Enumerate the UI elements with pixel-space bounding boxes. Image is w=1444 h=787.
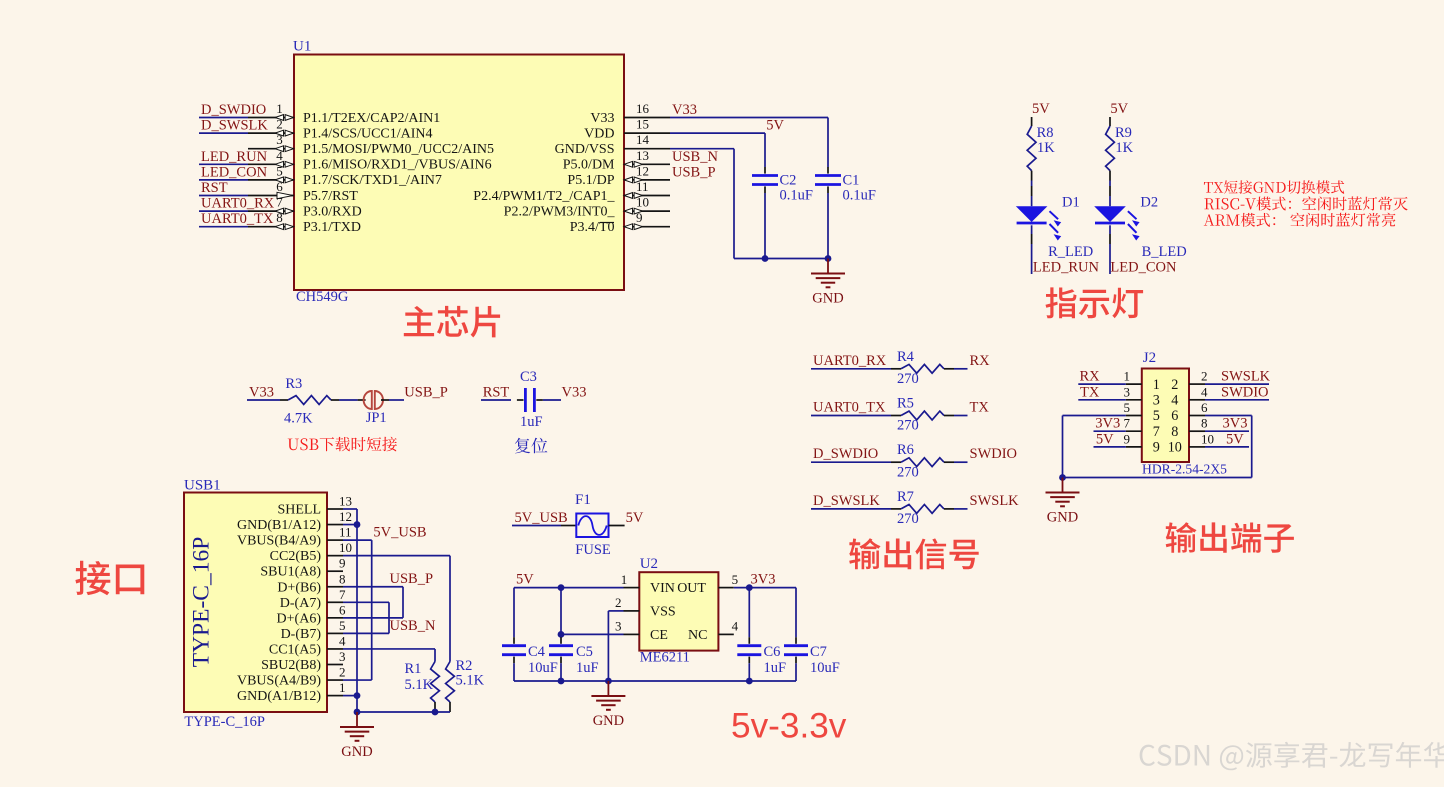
U1 pin name P5.1/DP <box>567 173 614 188</box>
junction <box>558 678 565 685</box>
resistor R3 <box>288 396 331 405</box>
U1 pin 5 io arrow <box>275 177 293 183</box>
svg-text:270: 270 <box>897 464 919 480</box>
LED D2 lead <box>1109 234 1111 244</box>
LED D2 lead <box>1109 186 1111 196</box>
node RST <box>483 385 510 401</box>
regulator U2 body <box>639 572 718 650</box>
title 接口 <box>75 561 144 595</box>
U1 pin 11 lead <box>624 195 670 197</box>
svg-text:5V: 5V <box>1032 101 1050 117</box>
svg-text:ME6211: ME6211 <box>640 650 690 666</box>
J2 pin 1 lead <box>1126 383 1142 385</box>
node V33 <box>672 102 697 118</box>
svg-text:5V: 5V <box>766 118 784 134</box>
node USB_P <box>390 571 434 587</box>
U1 pin name P1.5/MOSI/PWM0_/UCC2/AIN5 <box>303 142 494 157</box>
USB1 pin name SBU2(B8) <box>261 658 321 673</box>
wire USB_P pin8 <box>343 587 403 618</box>
svg-text:D2: D2 <box>1140 195 1158 211</box>
svg-text:TX: TX <box>970 400 990 416</box>
USB1 pin 13 number <box>339 494 352 509</box>
U2 pin 1 number <box>621 572 628 587</box>
wire VSS down <box>608 611 623 681</box>
U1 pin name GND/VSS <box>555 142 615 157</box>
svg-text:16: 16 <box>636 101 650 116</box>
wire CC1 to R1 <box>343 649 435 662</box>
resistor R8 lead <box>1031 171 1033 181</box>
C5 reference <box>576 644 593 660</box>
wire SWSLK <box>1205 383 1269 385</box>
U1 pin 1 io arrow <box>275 115 293 121</box>
USB1 value TYPE-C_16P <box>184 714 265 730</box>
svg-text:D_SWSLK: D_SWSLK <box>201 118 268 134</box>
U2 pin 2 number <box>615 595 622 610</box>
svg-text:10: 10 <box>339 540 352 555</box>
J2 pin 9 number <box>1124 431 1131 446</box>
svg-text:12: 12 <box>339 509 352 524</box>
C3 value 1uF <box>520 414 543 430</box>
wire C7 branch <box>795 588 797 638</box>
USB1 pin 9 lead <box>327 570 343 572</box>
wire <box>1109 225 1111 234</box>
U2 pin name NC <box>688 628 707 643</box>
USB1 pin 13 lead <box>327 508 343 510</box>
USB1 pin name SHELL <box>277 503 321 518</box>
wire 3V3 right <box>1205 430 1249 432</box>
svg-text:R9: R9 <box>1115 125 1132 141</box>
resistor R5 lead <box>944 415 954 417</box>
svg-text:5V_USB: 5V_USB <box>515 510 568 526</box>
wire <box>1031 181 1033 187</box>
svg-text:3V3: 3V3 <box>751 572 776 588</box>
svg-text:11: 11 <box>339 525 352 540</box>
connector USB1 body <box>184 493 327 713</box>
node SWSLK <box>1221 369 1271 385</box>
annotation USB下载时短接 <box>288 437 397 452</box>
svg-text:8: 8 <box>339 571 346 586</box>
U2 pin 2 lead <box>624 610 640 612</box>
svg-text:15: 15 <box>636 117 649 132</box>
junction <box>354 692 361 699</box>
wire C4 branch <box>513 588 515 638</box>
USB1 reference <box>184 478 221 494</box>
J2 pin 8 lead <box>1189 430 1205 432</box>
svg-text:R5: R5 <box>897 396 914 412</box>
U1 pin 9 io arrow <box>624 224 642 230</box>
svg-text:USB_P: USB_P <box>672 164 716 180</box>
C3 reference <box>520 369 537 385</box>
node SWDIO <box>970 446 1018 462</box>
resistor R9 lead <box>1109 171 1111 181</box>
U1 pin name P2.2/PWM3/INT0_ <box>504 204 616 219</box>
resistor R6 lead <box>944 461 954 463</box>
node 3V3 <box>1095 416 1120 432</box>
U1 pin 15 number <box>636 117 649 132</box>
svg-text:D_SWDIO: D_SWDIO <box>813 446 878 462</box>
ground <box>591 681 625 729</box>
svg-text:1K: 1K <box>1037 140 1055 156</box>
wire <box>339 399 358 401</box>
watermark CSDN <box>1140 742 1444 771</box>
IC U1 CH549G body <box>294 55 624 291</box>
svg-text:5: 5 <box>1153 408 1160 424</box>
U2 pin 5 lead <box>718 587 733 589</box>
U2 pin name OUT <box>677 581 706 596</box>
node UART0_RX <box>201 196 275 212</box>
node USB_P <box>404 385 448 401</box>
U1 reference designator <box>293 39 311 55</box>
U1 pin 4 io arrow <box>275 161 293 167</box>
node USB_N <box>390 618 436 634</box>
node SWSLK <box>970 493 1020 509</box>
svg-text:OUT: OUT <box>677 581 706 596</box>
fuse F1 <box>576 514 608 538</box>
junction <box>605 678 612 685</box>
J2 pin 1 number inside <box>1153 377 1160 393</box>
U1 pin name P3.4/T0 <box>570 220 615 235</box>
U1 pin 11 number <box>636 179 649 194</box>
USB1 pin 12 lead <box>327 524 343 526</box>
R3 reference <box>285 376 302 392</box>
U1 pin 7 io arrow <box>275 208 293 214</box>
resistor R5 <box>901 411 944 420</box>
U1 pin 14 number <box>636 132 650 147</box>
capacitor C1 <box>815 167 841 193</box>
resistor R6 <box>901 458 944 467</box>
svg-text:7: 7 <box>1153 424 1160 440</box>
junction <box>558 584 565 591</box>
svg-text:2: 2 <box>615 595 622 610</box>
wire <box>748 663 750 681</box>
U1 pin 10 number <box>636 195 649 210</box>
title 输出端子 <box>1166 522 1294 553</box>
annotation TX短接GND切换模式 <box>1204 180 1344 194</box>
svg-text:R1: R1 <box>405 661 422 677</box>
wire <box>513 663 515 681</box>
svg-text:8: 8 <box>1171 424 1178 440</box>
node 3V3 <box>751 572 776 588</box>
svg-text:V33: V33 <box>590 111 614 126</box>
U1 pin name V33 <box>590 111 614 126</box>
capacitor C3 <box>517 388 543 412</box>
USB1 pin 11 number <box>339 525 352 540</box>
wire <box>560 663 562 681</box>
U1 pin 16 number <box>636 101 650 116</box>
wire GND pin1 <box>343 695 357 697</box>
U1 pin 5 number <box>276 163 283 178</box>
svg-text:7: 7 <box>339 587 346 602</box>
svg-text:D_SWSLK: D_SWSLK <box>813 493 880 509</box>
svg-text:P1.7/SCK/TXD1_/AIN7: P1.7/SCK/TXD1_/AIN7 <box>303 173 442 188</box>
node RST <box>201 180 228 196</box>
USB1 pin 8 number <box>339 571 346 586</box>
USB1 pin 4 number <box>339 633 346 648</box>
svg-text:D-(B7): D-(B7) <box>281 627 322 642</box>
resistor R2 <box>446 662 455 703</box>
wire <box>481 399 511 401</box>
U1 pin 4 lead <box>248 163 294 165</box>
svg-text:C6: C6 <box>764 644 781 660</box>
svg-text:UART0_TX: UART0_TX <box>201 211 274 227</box>
C5 value 1uF <box>576 660 599 676</box>
wire <box>811 461 891 463</box>
svg-text:1uF: 1uF <box>576 660 599 676</box>
svg-text:LED_CON: LED_CON <box>1110 259 1177 275</box>
svg-text:V33: V33 <box>562 385 587 401</box>
svg-text:0.1uF: 0.1uF <box>780 188 813 204</box>
resistor R7 lead <box>891 508 901 510</box>
node V33 <box>562 385 587 401</box>
svg-text:9: 9 <box>339 556 346 571</box>
junction <box>354 709 361 716</box>
svg-text:HDR-2.54-2X5: HDR-2.54-2X5 <box>1142 462 1227 477</box>
svg-text:10: 10 <box>1201 431 1214 446</box>
node USB_N <box>672 149 718 165</box>
svg-text:3: 3 <box>276 132 283 147</box>
U1 pin name P5.0/DM <box>563 158 615 173</box>
wire C1 to rail <box>827 193 829 259</box>
svg-text:NC: NC <box>688 628 707 643</box>
U1 pin 9 lead <box>624 226 670 228</box>
C2 value 0.1uF <box>780 188 813 204</box>
USB1 pin 7 lead <box>327 601 343 603</box>
svg-text:LED_RUN: LED_RUN <box>1033 259 1100 275</box>
wire <box>512 525 561 527</box>
svg-text:6: 6 <box>276 179 283 194</box>
U1 pin 12 io arrow <box>624 177 642 183</box>
svg-text:9: 9 <box>1153 440 1160 456</box>
J2 pin 6 number inside <box>1171 408 1178 424</box>
U2 pin 1 lead <box>624 587 640 589</box>
U2 pin name VSS <box>650 604 676 619</box>
svg-text:LED_RUN: LED_RUN <box>201 149 268 165</box>
U1 pin 13 number <box>636 148 649 163</box>
U1 pin 10 lead <box>624 210 670 212</box>
J2 pin 5 lead <box>1126 415 1142 417</box>
node 5V <box>1096 431 1114 447</box>
svg-text:270: 270 <box>897 371 919 387</box>
svg-text:R6: R6 <box>897 442 914 458</box>
junction <box>354 521 361 528</box>
J2 pin 6 lead <box>1189 415 1205 417</box>
wire <box>1031 196 1033 206</box>
USB1 pin 7 number <box>339 587 346 602</box>
svg-text:USB_N: USB_N <box>672 149 718 165</box>
wire 5V left <box>1094 446 1126 448</box>
wire <box>247 399 280 401</box>
C7 value 10uF <box>810 660 840 676</box>
wire <box>954 508 968 510</box>
resistor R3 lead <box>331 399 339 401</box>
resistor R5 lead <box>891 415 901 417</box>
USB1 pin 1 number <box>339 680 346 695</box>
svg-text:C2: C2 <box>780 173 797 189</box>
svg-text:GND: GND <box>812 291 843 307</box>
J2 pin 5 number inside <box>1153 408 1160 424</box>
wire 5V right <box>1205 446 1249 448</box>
J2 pin 9 number inside <box>1153 440 1160 456</box>
svg-text:5V: 5V <box>1096 431 1114 447</box>
U1 pin name P1.6/MISO/RXD1_/VBUS/AIN6 <box>303 158 492 173</box>
capacitor C2 <box>752 167 778 193</box>
C1 value 0.1uF <box>843 188 876 204</box>
wire GND pin12 <box>343 524 357 526</box>
svg-text:P1.1/T2EX/CAP2/AIN1: P1.1/T2EX/CAP2/AIN1 <box>303 111 440 126</box>
wire <box>199 132 248 134</box>
svg-text:8: 8 <box>276 210 283 225</box>
svg-text:U2: U2 <box>640 556 658 572</box>
wire ground rail <box>514 680 796 682</box>
svg-text:J2: J2 <box>1143 350 1156 366</box>
U2 value ME6211 <box>640 650 690 666</box>
svg-text:SWDIO: SWDIO <box>970 446 1018 462</box>
J2 pin 10 number inside <box>1168 440 1182 456</box>
svg-text:GND(A1/B12): GND(A1/B12) <box>237 689 321 704</box>
resistor R8 <box>1027 126 1036 171</box>
USB1 pin 3 number <box>339 649 346 664</box>
resistor R8 lead <box>1031 117 1033 126</box>
ground <box>811 259 845 307</box>
J2 pin 5 number <box>1124 400 1131 415</box>
U2 pin name VIN <box>650 581 675 596</box>
svg-text:USB_P: USB_P <box>404 385 448 401</box>
C6 value 1uF <box>764 660 787 676</box>
wire OUT to 3V3 <box>734 587 796 589</box>
USB1 pin 2 lead <box>327 679 343 681</box>
svg-text:D_SWDIO: D_SWDIO <box>201 102 266 118</box>
U1 pin name P5.7/RST <box>303 189 358 204</box>
JP1 reference <box>366 410 387 426</box>
node UART0_TX <box>813 400 886 416</box>
LED D1 lead <box>1031 234 1033 244</box>
svg-text:P5.1/DP: P5.1/DP <box>567 173 614 188</box>
wire <box>199 163 248 165</box>
USB1 pin 10 number <box>339 540 352 555</box>
svg-text:4: 4 <box>339 633 346 648</box>
jumper JP1 lead <box>358 399 366 401</box>
annotation 复位 <box>515 438 548 454</box>
resistor R7 lead <box>944 508 954 510</box>
svg-text:LED_CON: LED_CON <box>201 164 268 180</box>
svg-text:P1.4/SCS/UCC1/AIN4: P1.4/SCS/UCC1/AIN4 <box>303 126 433 141</box>
svg-text:9: 9 <box>1124 431 1131 446</box>
svg-text:4.7K: 4.7K <box>284 411 313 427</box>
wire RX <box>1078 383 1126 385</box>
node RX <box>1080 369 1101 385</box>
junction <box>746 584 753 591</box>
node TX <box>1080 384 1100 400</box>
node 5V <box>766 118 784 134</box>
U1 pin 8 io arrow <box>275 224 293 230</box>
J2 pin 1 number <box>1124 369 1131 384</box>
J2 pin 2 number <box>1201 369 1208 384</box>
svg-text:1: 1 <box>339 680 346 695</box>
svg-text:10uF: 10uF <box>810 660 840 676</box>
svg-text:2: 2 <box>276 117 283 132</box>
J2 pin 7 number inside <box>1153 424 1160 440</box>
wire VBUS pin2 <box>343 679 372 681</box>
J2 pin 4 number <box>1201 384 1208 399</box>
J2 pin 2 number inside <box>1171 377 1178 393</box>
U1 pin 14 lead <box>624 148 670 150</box>
jumper JP1 <box>364 391 383 409</box>
D1 reference <box>1062 195 1080 211</box>
svg-text:5.1K: 5.1K <box>456 673 485 689</box>
svg-text:2: 2 <box>1171 377 1178 393</box>
U1 pin 13 lead <box>624 163 670 165</box>
J2 pin 8 number <box>1201 416 1208 431</box>
svg-text:7: 7 <box>276 195 283 210</box>
USB1 pin name D-(B7) <box>281 627 322 642</box>
svg-text:3V3: 3V3 <box>1095 416 1120 432</box>
svg-text:R7: R7 <box>897 489 914 505</box>
wire pin6 to GND <box>1205 416 1252 478</box>
annotation ARM模式 <box>1204 213 1396 227</box>
USB1 pin 11 lead <box>327 539 343 541</box>
U2 reference <box>640 556 658 572</box>
svg-text:GND/VSS: GND/VSS <box>555 142 615 157</box>
C1 reference <box>843 173 860 189</box>
svg-text:10uF: 10uF <box>528 660 558 676</box>
wire 5V to VIN <box>514 587 624 589</box>
USB1 pin 10 lead <box>327 555 343 557</box>
svg-text:SBU2(B8): SBU2(B8) <box>261 658 321 673</box>
svg-text:0.1uF: 0.1uF <box>843 188 876 204</box>
svg-text:6: 6 <box>339 602 346 617</box>
U1 pin 12 number <box>636 163 649 178</box>
title 指示灯 <box>1046 287 1144 318</box>
USB1 pin 5 lead <box>327 632 343 634</box>
svg-text:14: 14 <box>636 132 650 147</box>
wire <box>1109 196 1111 206</box>
svg-text:3: 3 <box>1153 393 1160 409</box>
USB1 pin name CC1(A5) <box>269 642 321 657</box>
node SWDIO <box>1221 384 1269 400</box>
svg-text:11: 11 <box>636 179 649 194</box>
wire <box>199 210 248 212</box>
svg-text:1K: 1K <box>1115 140 1133 156</box>
D2 reference <box>1140 195 1158 211</box>
junction <box>762 255 769 262</box>
wire CE <box>561 633 624 635</box>
C4 reference <box>528 644 546 660</box>
svg-text:5: 5 <box>339 618 346 633</box>
USB1 pin 8 lead <box>327 586 343 588</box>
USB1 pin 6 number <box>339 602 346 617</box>
U1 pin name P2.4/PWM1/T2_/CAP1_ <box>473 189 615 204</box>
U1 pin 1 lead <box>248 117 294 119</box>
jumper JP1 lead <box>381 399 389 401</box>
svg-text:D+(B6): D+(B6) <box>277 580 321 595</box>
J2 pin 4 number inside <box>1171 393 1178 409</box>
svg-text:VDD: VDD <box>584 126 614 141</box>
svg-text:CE: CE <box>650 628 668 643</box>
svg-text:UART0_RX: UART0_RX <box>813 353 887 369</box>
wire C6 branch <box>748 588 750 638</box>
USB1 pin 12 number <box>339 509 352 524</box>
wire <box>811 508 891 510</box>
R5 reference <box>897 396 914 412</box>
svg-text:R4: R4 <box>897 349 915 365</box>
svg-text:UART0_TX: UART0_TX <box>813 400 886 416</box>
USB1 pin name D-(A7) <box>280 596 322 611</box>
USB1 pin name GND(A1/B12) <box>237 689 321 704</box>
U1 pin 8 number <box>276 210 283 225</box>
R1 value 5.1K <box>405 677 434 693</box>
resistor R1 <box>431 662 440 703</box>
wire TX <box>1078 399 1126 401</box>
